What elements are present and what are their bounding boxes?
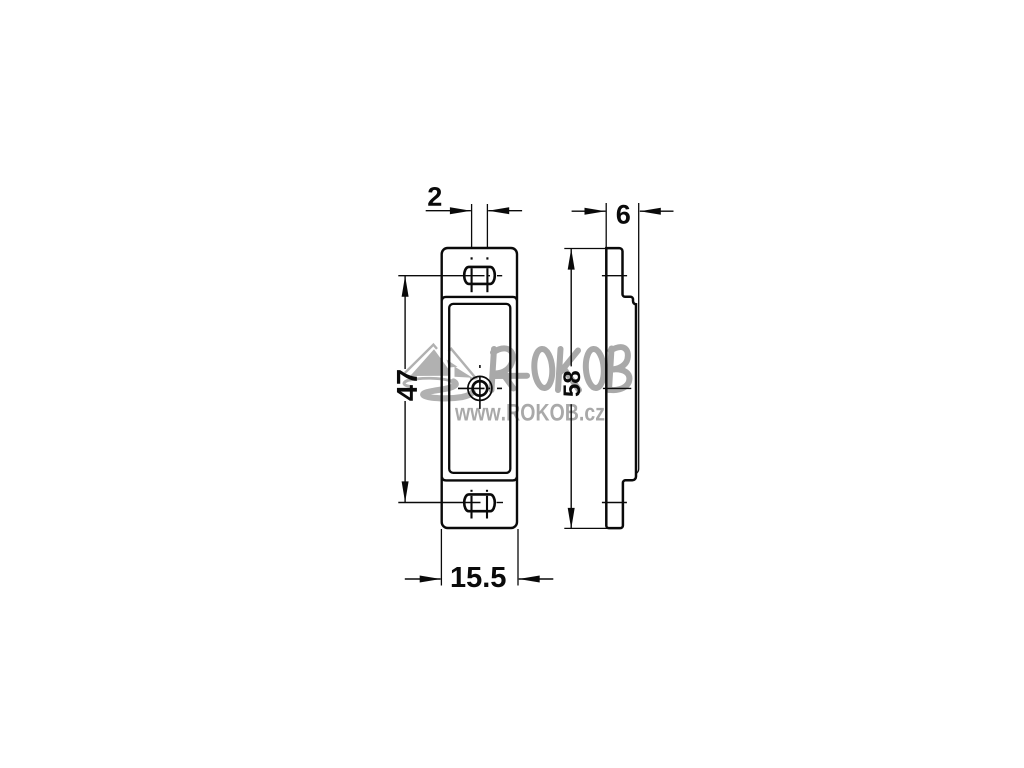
dim58 label xyxy=(563,371,580,396)
raised cup top edge xyxy=(442,297,517,300)
dim155 label xyxy=(452,567,506,587)
front view group xyxy=(398,248,517,528)
plate outline xyxy=(442,248,517,528)
dimension 6 xyxy=(572,203,674,248)
watermark mountain left slope line xyxy=(405,345,437,373)
watermark base band xyxy=(411,372,450,376)
dim6 extension left xyxy=(605,203,607,248)
dim2 line left xyxy=(426,210,471,212)
dim2 extension right xyxy=(486,204,488,249)
center hole vertical centerline xyxy=(479,365,481,409)
dim47 line upper xyxy=(404,276,406,369)
cup face rect xyxy=(449,304,510,473)
center hole horizontal centerline xyxy=(458,387,502,389)
dimension 58 xyxy=(563,249,608,529)
dim6 arrow left xyxy=(585,208,606,215)
center hole inner circle xyxy=(473,381,488,396)
bottom slot arc centerline right xyxy=(486,490,488,519)
dim47 arrow up xyxy=(402,276,409,297)
dim2 arrow right xyxy=(488,207,509,214)
dim47 arrow down xyxy=(402,481,409,502)
top screw slot xyxy=(464,267,495,284)
top slot arc centerline left xyxy=(471,257,473,292)
dim6 arrow right xyxy=(640,208,661,215)
dim6 line left xyxy=(572,210,606,212)
dim47 label xyxy=(397,370,417,401)
dim58 line lower xyxy=(570,404,572,529)
watermark www.rokob.cz xyxy=(455,404,604,421)
watermark letter O1 xyxy=(533,348,553,388)
side tick center xyxy=(603,387,631,389)
dim155 arrow right xyxy=(519,576,540,583)
dim155 arrow left xyxy=(420,576,441,583)
top slot arc centerline right xyxy=(486,257,488,292)
dim58 arrow up xyxy=(568,249,575,270)
watermark mountain right slope line xyxy=(449,349,476,379)
dim2 extension left xyxy=(471,204,473,249)
dim58 extension bottom xyxy=(564,527,608,529)
watermark letter R xyxy=(492,348,528,390)
side tick bottom slot xyxy=(602,502,627,504)
watermark group xyxy=(404,345,629,421)
dim2 label xyxy=(428,187,441,206)
side tick top slot xyxy=(602,275,627,277)
watermark right peak inner wedge xyxy=(447,360,458,368)
watermark mountain left peak body xyxy=(411,349,449,375)
raised cup bottom edge xyxy=(442,477,517,480)
dimension 15.5 xyxy=(405,529,554,587)
watermark letter K xyxy=(558,349,579,390)
side front thin line xyxy=(636,203,639,474)
bottom slot horizontal centerline xyxy=(398,502,503,504)
watermark letter B xyxy=(608,347,629,390)
dim155 line right xyxy=(519,578,554,580)
dim6 label xyxy=(617,205,630,224)
dimension 2 xyxy=(426,187,522,249)
center hole outer circle xyxy=(468,376,492,400)
watermark swoosh upper arc xyxy=(407,378,454,381)
dim6 line right xyxy=(640,210,674,212)
dim58 line upper xyxy=(570,249,572,367)
dim58 arrow down xyxy=(568,508,575,529)
dim155 extension left xyxy=(440,529,442,586)
dim2 line right xyxy=(488,210,522,212)
dim155 line left xyxy=(405,578,441,580)
dim155 extension right xyxy=(517,529,519,586)
side profile outline xyxy=(606,248,636,528)
watermark right peak lower solid xyxy=(455,367,473,378)
watermark swoosh left hook xyxy=(404,381,409,387)
top slot horizontal centerline xyxy=(398,275,502,277)
dimension 47 xyxy=(397,276,417,503)
side view group xyxy=(602,203,639,528)
dim58 extension top xyxy=(564,248,606,250)
watermark letter O2 xyxy=(585,348,605,388)
bottom screw slot xyxy=(464,494,495,511)
bottom slot arc centerline left xyxy=(470,490,472,519)
dim47 line lower xyxy=(404,401,406,502)
watermark swoosh loop xyxy=(423,382,473,399)
dim2 arrow left xyxy=(450,207,471,214)
